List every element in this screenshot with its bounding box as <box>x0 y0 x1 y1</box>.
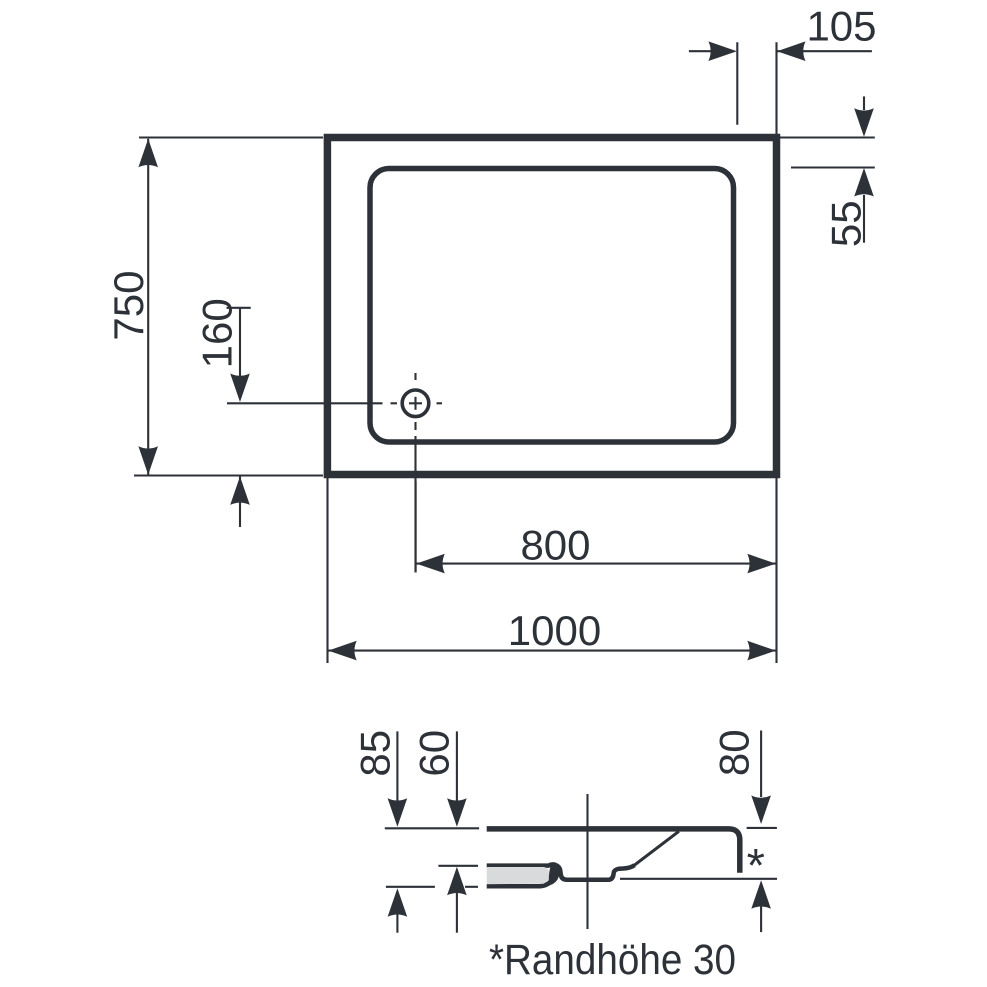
svg-text:1000: 1000 <box>508 607 601 654</box>
svg-text:800: 800 <box>520 521 590 568</box>
svg-text:160: 160 <box>194 298 241 368</box>
svg-text:55: 55 <box>822 200 869 247</box>
svg-text:80: 80 <box>710 729 757 776</box>
svg-text:*Randhöhe 30: *Randhöhe 30 <box>489 937 736 984</box>
svg-text:60: 60 <box>410 730 457 777</box>
svg-text:750: 750 <box>105 271 152 341</box>
svg-text:85: 85 <box>351 730 398 777</box>
svg-text:105: 105 <box>806 2 876 49</box>
svg-text:*: * <box>747 839 765 892</box>
